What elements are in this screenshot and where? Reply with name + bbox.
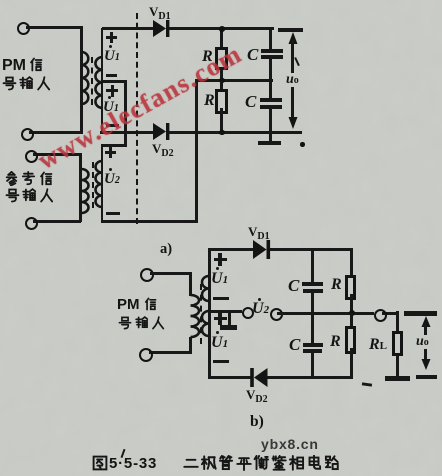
wire Jb1 to Tb primary bbox=[150, 272, 191, 275]
resistor RL bbox=[392, 331, 403, 357]
stray dash under RL bbox=[362, 382, 372, 386]
uo arrow down (a) bbox=[288, 117, 298, 130]
C1b stub top bbox=[311, 250, 314, 283]
label minus (U1 upper) bbox=[106, 74, 117, 77]
label VD1 bbox=[149, 5, 171, 22]
label a) bbox=[160, 242, 172, 257]
resistor R2b bbox=[345, 326, 357, 354]
capacitor C1b bbox=[302, 282, 323, 286]
label PM input (b) line2 bbox=[118, 316, 165, 330]
label C1a bbox=[247, 46, 258, 63]
resistor R1a stub bottom bbox=[220, 70, 223, 81]
wire T1 primary left vertical bbox=[80, 26, 83, 134]
ground bar RL bbox=[385, 376, 410, 381]
capacitor C2b bbox=[303, 343, 323, 347]
label uo (a) bbox=[286, 73, 299, 87]
Tb secondary winding lower bbox=[199, 309, 211, 339]
T2 core dashed bbox=[92, 162, 94, 208]
label + (Ub1 lower) bbox=[214, 317, 227, 320]
ground stub (a) bbox=[269, 133, 272, 142]
label U2 (b) bbox=[252, 301, 269, 317]
C2b stub bottom bbox=[311, 352, 314, 378]
transformer T1 secondary winding bbox=[91, 55, 104, 110]
wire sec bottom to VD2b bbox=[208, 376, 252, 379]
ground stub on center tap bbox=[228, 312, 231, 325]
ring on middle wire bbox=[374, 309, 387, 322]
label uo (b) bbox=[416, 335, 429, 349]
wire sec top to VD1b bbox=[208, 248, 253, 251]
middle wire b right of ring bbox=[382, 312, 398, 315]
bottom rail b bbox=[267, 376, 353, 379]
label minus lower (b) bbox=[213, 360, 229, 364]
label U1 lower (b) bbox=[211, 335, 228, 351]
label reference input bbox=[4, 171, 53, 186]
wire J2 to T1 primary bottom bbox=[29, 131, 83, 134]
terminal J1 (PM input top) bbox=[17, 22, 30, 35]
T2 secondary vertical bbox=[101, 160, 104, 222]
label U1 upper bbox=[104, 49, 120, 64]
label RL bbox=[369, 337, 387, 353]
transformer Tb primary winding bbox=[187, 293, 203, 339]
uo dim line lower (b) bbox=[424, 349, 427, 361]
wire center tap across to T2 sec top bbox=[101, 144, 128, 147]
resistor R1a bbox=[215, 47, 228, 70]
wire middle node down to T2 secondary bottom bbox=[195, 79, 198, 222]
terminal J4 bbox=[25, 217, 38, 230]
resistor R2a bbox=[215, 89, 228, 114]
caption figure number bbox=[92, 455, 157, 471]
capacitor C1a stub top bbox=[269, 29, 272, 50]
junction dot middle R bbox=[219, 78, 225, 84]
label R2a bbox=[204, 93, 215, 109]
corner wire top rail down to R1b bbox=[350, 248, 353, 253]
junction dot top rail R bbox=[219, 26, 225, 32]
label PM input (b) line1 bbox=[117, 297, 157, 312]
RL stub bottom bbox=[396, 356, 399, 377]
wire down to T2 secondary bbox=[101, 144, 104, 163]
resistor R2a stub top bbox=[220, 81, 223, 90]
wire T1 sec bottom to VD2 bbox=[100, 131, 154, 134]
center tap wire to right bbox=[102, 80, 127, 83]
T1 secondary vertical line bbox=[101, 28, 104, 134]
uo arrow down (b) bbox=[421, 359, 431, 371]
capacitor C1a bbox=[261, 49, 283, 53]
transformer T2 secondary winding bbox=[93, 159, 104, 209]
stray tick mark bbox=[294, 57, 300, 66]
C2b stub top bbox=[311, 314, 314, 343]
Tb secondary winding upper bbox=[199, 274, 211, 304]
uo arrow up (b) bbox=[421, 316, 431, 328]
R1b stub bottom bbox=[350, 294, 353, 313]
diode VD2b (points left) bbox=[249, 367, 269, 389]
label C1b bbox=[288, 277, 299, 294]
label R2b bbox=[330, 334, 341, 350]
label R1b bbox=[331, 277, 342, 293]
T2 wire top bbox=[33, 153, 81, 156]
ground bar on center tap bbox=[220, 325, 237, 330]
transformer T2 primary winding bbox=[78, 167, 94, 215]
R2b stub top bbox=[350, 313, 353, 326]
diode VD2 bbox=[152, 122, 172, 142]
uo bottom bar (b) bbox=[416, 375, 437, 380]
label U1 lower bbox=[103, 100, 119, 115]
label VD1b bbox=[248, 225, 270, 242]
wire Jb2 to Tb primary bbox=[149, 351, 191, 354]
Tb primary vertical bottom bbox=[189, 337, 192, 354]
terminal Jb2 bbox=[139, 348, 153, 362]
junction dot bottom rail R bbox=[219, 130, 225, 136]
caption title bbox=[183, 455, 340, 471]
diode VD1b bbox=[252, 239, 272, 261]
top rail right of VD1 bbox=[169, 27, 274, 30]
capacitor C2a stub top bbox=[269, 81, 272, 98]
uo top bar (b) bbox=[404, 311, 438, 316]
capacitor C2a bbox=[260, 98, 282, 102]
terminal J3 bbox=[25, 150, 38, 163]
label + (U1 lower) bbox=[106, 89, 118, 92]
center tap drop wire bbox=[124, 80, 127, 145]
resistor R1b bbox=[345, 275, 357, 301]
uo dim line upper (a) bbox=[291, 40, 294, 73]
T2 primary vertical bbox=[79, 153, 82, 222]
label VD2 bbox=[152, 142, 174, 159]
middle rail bbox=[195, 79, 273, 82]
caption tick artifact bbox=[121, 449, 126, 458]
label C2a bbox=[245, 93, 256, 110]
Tb primary vertical top bbox=[189, 272, 192, 296]
T2 secondary bottom wire bbox=[101, 220, 198, 223]
RL branch wire down bbox=[396, 311, 399, 331]
R2b stub bottom bbox=[350, 348, 353, 379]
label + (Ub1 upper) bbox=[214, 258, 227, 261]
ink speck bbox=[300, 142, 305, 147]
capacitor C1a stub bottom bbox=[269, 59, 272, 81]
bottom rail right of VD2 bbox=[169, 131, 302, 134]
label minus upper (b) bbox=[213, 297, 229, 301]
uo dimension top bar (a) bbox=[278, 28, 304, 32]
label + (U2) bbox=[105, 151, 116, 154]
label U2 bbox=[104, 172, 120, 187]
watermark ybx8.cn bbox=[261, 436, 319, 452]
label b) bbox=[250, 414, 264, 430]
wire J1 to T1 primary top bbox=[26, 26, 82, 29]
label + (U1 upper) bbox=[106, 36, 117, 39]
label VD2b bbox=[246, 388, 268, 405]
center tap wire (b) bbox=[209, 310, 242, 313]
Tb secondary vertical bbox=[208, 250, 211, 376]
label U1 upper (b) bbox=[211, 271, 228, 287]
Tb core dashed bbox=[200, 284, 202, 344]
terminal ring Ub2 right bbox=[270, 308, 283, 321]
red watermark www.elecfans.com bbox=[32, 13, 292, 176]
resistor R1a stub top bbox=[220, 29, 223, 47]
top rail left of VD1 bbox=[102, 27, 153, 30]
T1 core dashed bbox=[91, 57, 93, 105]
T2 wire bottom bbox=[33, 220, 81, 223]
label minus (U1 lower) bbox=[106, 124, 119, 127]
uo dim line upper (b) bbox=[424, 324, 427, 335]
top rail b bbox=[270, 248, 353, 251]
label minus (U2) bbox=[106, 212, 120, 215]
diode VD1 bbox=[152, 19, 172, 39]
terminal Jb1 bbox=[140, 268, 154, 282]
CJK glyph defs bbox=[0, 0, 6, 6]
uo dim line lower (a) bbox=[291, 87, 294, 117]
label C2b bbox=[289, 336, 300, 353]
ground bar (a) bbox=[258, 141, 281, 146]
uo arrow up (a) bbox=[288, 32, 298, 45]
terminal J2 bbox=[21, 128, 34, 141]
transformer T1 primary winding bbox=[78, 50, 94, 108]
terminal ring Ub2 left bbox=[242, 307, 254, 319]
junction dot middle b bbox=[349, 310, 355, 316]
C1b stub bottom bbox=[311, 293, 314, 313]
label R1a bbox=[202, 49, 213, 65]
capacitor C2a stub bottom bbox=[269, 109, 272, 132]
label PM input (a) bbox=[2, 57, 43, 74]
resistor R2a stub bottom bbox=[220, 108, 223, 133]
middle wire b bbox=[277, 312, 374, 315]
R1b stub top bbox=[350, 251, 353, 275]
main dashed separation line bbox=[136, 13, 138, 224]
